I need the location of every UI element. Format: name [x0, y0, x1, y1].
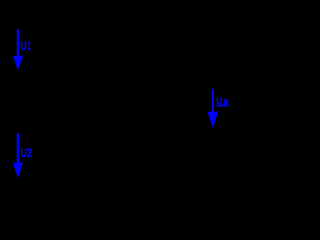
wire left branch middle [39, 72, 41, 132]
voltage arrow Ua [208, 89, 219, 128]
wire top rail [40, 9, 235, 11]
svg-text:1: 1 [27, 39, 31, 53]
wire right branch upper [234, 10, 236, 82]
svg-text:U: U [20, 39, 26, 53]
label U2 [21, 146, 33, 160]
terminal upper [233, 83, 238, 88]
wire right branch lower [234, 136, 236, 205]
voltage arrow U1 [13, 30, 23, 71]
wire left branch upper [39, 10, 41, 32]
svg-text:2: 2 [27, 146, 33, 160]
label Ua [216, 97, 228, 108]
resistor R2 [31, 132, 49, 178]
wire left branch lower [39, 178, 41, 205]
voltage arrow U2 [13, 133, 23, 178]
resistor R1 [31, 32, 49, 72]
wire bottom rail [40, 204, 235, 206]
label U1 [20, 39, 31, 53]
terminal lower [233, 131, 238, 136]
